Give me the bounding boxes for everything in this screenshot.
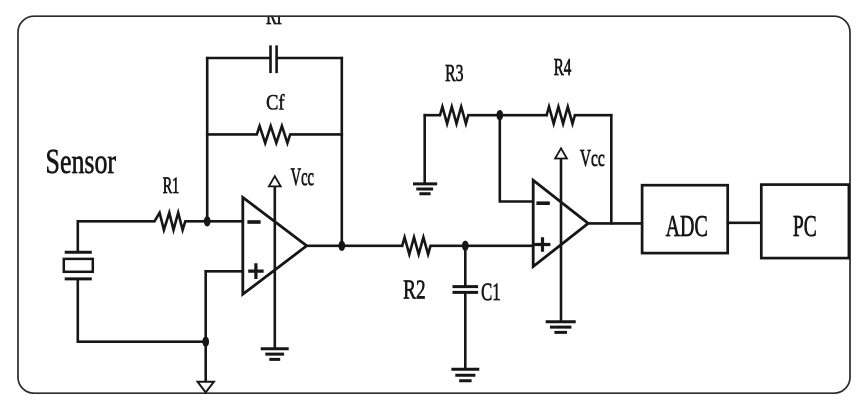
svg-text:PC: PC [793, 208, 817, 243]
wire sensor bottom horizontal [78, 340, 206, 343]
wire non-inverting input horizontal [206, 270, 243, 273]
crystal sensor bottom plate [66, 277, 90, 280]
capacitor C1 top lead [464, 246, 467, 285]
svg-text:C1: C1 [481, 278, 500, 306]
wire R3 left vertical [423, 115, 426, 182]
wire to earth symbol [204, 342, 207, 382]
ground U1 [262, 349, 287, 360]
node junction R1/feedback/inverting input [204, 216, 211, 226]
wire R4 right vertical [610, 115, 613, 223]
svg-text:R1: R1 [163, 174, 180, 199]
capacitor C1 bottom lead [464, 294, 467, 368]
resistor R3 [425, 107, 547, 124]
node junction R3/R4 [496, 110, 503, 120]
resistor R1 [78, 213, 243, 230]
resistor R2 [402, 237, 533, 254]
crystal sensor body [64, 259, 93, 272]
wire ADC to PC [728, 222, 762, 225]
node junction R2/C1 [462, 241, 469, 251]
wire feedback left vertical [206, 58, 209, 221]
crystal sensor top lead [77, 221, 80, 251]
ground C1 [453, 369, 478, 381]
svg-text:Sensor: Sensor [46, 143, 117, 181]
Vcc arrow head U2 [555, 148, 567, 158]
svg-text:R4: R4 [554, 54, 572, 80]
svg-text:Vcc: Vcc [580, 146, 605, 172]
wire non-inverting input vertical [204, 271, 207, 341]
op-amp U2 minus sign [538, 201, 548, 205]
ground U2 [547, 322, 574, 333]
Vcc arrow head U1 [269, 176, 281, 186]
crystal sensor top plate [66, 251, 90, 254]
crystal sensor bottom lead [77, 280, 80, 341]
wire R3/R4 node down [500, 115, 533, 201]
Vcc supply line U1 [273, 186, 276, 348]
resistor feedback middle branch [207, 126, 342, 143]
capacitor C1 plates [454, 287, 477, 293]
wire op-amp U2 output [588, 222, 642, 225]
block PC [761, 185, 849, 259]
resistor R4 [547, 107, 612, 124]
svg-text:ADC: ADC [666, 209, 708, 243]
svg-text:Cf: Cf [266, 91, 285, 115]
op-amp U1 plus sign [250, 265, 262, 278]
node junction U1 output/feedback [338, 241, 345, 251]
svg-text:R3: R3 [445, 61, 463, 87]
node junction sensor/ground [202, 337, 209, 347]
op-amp U2 plus sign [536, 239, 549, 250]
capacitor feedback (top branch) [271, 47, 277, 72]
svg-text:R2: R2 [403, 275, 426, 305]
wire feedback top right segment [278, 57, 342, 60]
op-amp U1 minus sign [249, 220, 259, 224]
ground R3 [415, 184, 436, 194]
op-amp U1 [243, 197, 307, 294]
earth arrow (open triangle) [198, 382, 214, 393]
Vcc supply line U2 [560, 158, 563, 320]
wire feedback top left segment [207, 57, 269, 60]
white mask above frame top [0, 0, 865, 15]
wire feedback right vertical [340, 58, 343, 246]
block ADC [642, 185, 728, 253]
wire op-amp U1 output [307, 245, 403, 248]
op-amp U2 [533, 180, 588, 266]
svg-text:Vcc: Vcc [291, 164, 314, 191]
